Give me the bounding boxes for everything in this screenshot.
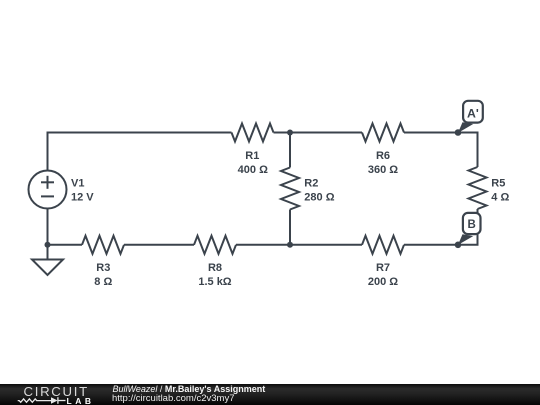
wire bottom left (48, 244, 83, 246)
node B flag pointer (458, 234, 473, 245)
svg-text:400 Ω: 400 Ω (238, 164, 268, 176)
node A' flag pointer (458, 122, 473, 133)
svg-text:8 Ω: 8 Ω (94, 276, 112, 288)
wire V1 bottom lead (47, 209, 49, 245)
resistor R8 (194, 236, 236, 254)
svg-text:280 Ω: 280 Ω (304, 192, 334, 204)
node junction bottom R2 (287, 242, 293, 248)
wire top right with corner (404, 133, 478, 168)
svg-text:4 Ω: 4 Ω (491, 191, 509, 203)
svg-text:R6: R6 (376, 150, 390, 162)
wire R2 upper lead (289, 133, 291, 168)
logo schematic line (0, 384, 110, 405)
caption line 1 (113, 385, 266, 394)
resistor R6 (362, 124, 404, 142)
resistor R1 (232, 124, 274, 142)
svg-text:12 V: 12 V (71, 192, 94, 204)
footer bar (0, 384, 540, 405)
node A' flag box (463, 101, 483, 123)
node B flag box (463, 213, 481, 234)
node junction A' (455, 129, 462, 136)
wire bottom middle right (236, 244, 362, 246)
node junction top R2 (287, 130, 293, 136)
resistor R3 (82, 236, 124, 254)
voltage source V1 (29, 171, 67, 209)
wire right lower vertical (404, 209, 478, 245)
svg-text:1.5 kΩ: 1.5 kΩ (198, 276, 231, 288)
caption line 2 (112, 394, 235, 404)
wire R2 lower lead (289, 210, 291, 245)
svg-text:R3: R3 (96, 262, 110, 274)
logo LAB word (67, 397, 95, 405)
node junction ground (45, 242, 51, 248)
node junction B (455, 242, 462, 249)
svg-text:200 Ω: 200 Ω (368, 276, 398, 288)
resistor R5 (469, 167, 487, 209)
resistor R7 (362, 236, 404, 254)
ground (47, 245, 49, 260)
svg-text:R5: R5 (491, 177, 505, 189)
wire bottom middle left (124, 244, 194, 246)
svg-text:360 Ω: 360 Ω (368, 164, 398, 176)
svg-text:R1: R1 (245, 150, 259, 162)
logo CIRCUIT word (24, 385, 89, 398)
svg-text:V1: V1 (71, 178, 84, 190)
svg-text:R2: R2 (304, 178, 318, 190)
resistor R2 (281, 168, 299, 210)
svg-text:A': A' (467, 106, 479, 120)
svg-text:R8: R8 (208, 262, 222, 274)
wire top middle (274, 132, 363, 134)
wire top left vertical (48, 133, 232, 171)
svg-text:R7: R7 (376, 262, 390, 274)
svg-text:B: B (467, 219, 475, 231)
